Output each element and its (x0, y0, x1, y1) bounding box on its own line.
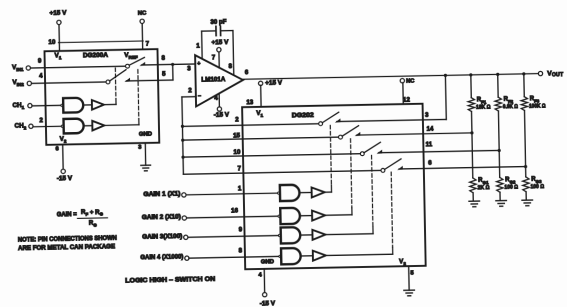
svg-text:+15 V: +15 V (49, 10, 67, 17)
svg-text:RF1: RF1 (477, 97, 487, 104)
svg-text:8: 8 (229, 63, 233, 70)
svg-text:10: 10 (48, 39, 56, 46)
svg-text:12: 12 (403, 96, 411, 103)
svg-text:LM101A: LM101A (201, 76, 226, 83)
svg-text:RF2: RF2 (504, 97, 514, 104)
svg-text:16: 16 (231, 207, 239, 214)
svg-text:7: 7 (146, 40, 150, 47)
svg-text:1: 1 (238, 185, 242, 192)
svg-text:+15 V: +15 V (211, 39, 229, 46)
svg-text:-15 V: -15 V (260, 300, 276, 307)
svg-text:5: 5 (162, 71, 166, 78)
svg-text:8: 8 (239, 248, 243, 255)
svg-text:RG3: RG3 (531, 176, 542, 183)
svg-text:+15 V: +15 V (265, 79, 283, 86)
svg-text:7: 7 (212, 54, 216, 61)
svg-text:NC: NC (138, 10, 147, 16)
svg-text:+: + (197, 61, 200, 67)
svg-text:VIN1: VIN1 (12, 64, 24, 72)
svg-text:-15 V: -15 V (214, 111, 230, 118)
svg-text:GAIN 4 (X1000): GAIN 4 (X1000) (140, 255, 183, 262)
svg-text:9.9K Ω: 9.9K Ω (503, 104, 519, 110)
svg-text:NC: NC (406, 78, 414, 84)
svg-text:NOTE: PIN CONNECTIONS SHOWN: NOTE: PIN CONNECTIONS SHOWN (18, 235, 118, 244)
svg-text:V1: V1 (55, 52, 62, 60)
svg-text:100 Ω: 100 Ω (531, 184, 545, 190)
svg-text:GAIN 1 (X1): GAIN 1 (X1) (143, 191, 180, 198)
svg-text:1: 1 (196, 42, 200, 49)
svg-text:11: 11 (426, 141, 433, 148)
svg-text:3: 3 (138, 145, 142, 151)
svg-text:V2: V2 (60, 135, 67, 143)
svg-text:DG202: DG202 (292, 112, 315, 119)
svg-text:8: 8 (161, 55, 165, 62)
svg-text:RG2: RG2 (505, 177, 516, 184)
svg-text:14: 14 (426, 126, 434, 133)
svg-text:3: 3 (425, 112, 429, 119)
svg-text:GAIN 3(X100): GAIN 3(X100) (142, 234, 182, 241)
svg-text:2: 2 (188, 87, 192, 94)
svg-text:GAIN =: GAIN = (57, 211, 77, 218)
svg-text:GND: GND (139, 131, 152, 137)
svg-text:DG200A: DG200A (83, 52, 109, 59)
svg-text:9: 9 (38, 58, 42, 65)
svg-text:9: 9 (239, 226, 243, 233)
svg-text:RG: RG (89, 220, 98, 228)
svg-text:6: 6 (428, 160, 432, 167)
svg-text:4: 4 (39, 73, 43, 80)
svg-text:100K Ω: 100K Ω (529, 104, 546, 110)
svg-text:5: 5 (410, 270, 414, 276)
svg-text:V1: V1 (256, 110, 263, 118)
svg-text:ARE FOR METAL CAN PACKAGE: ARE FOR METAL CAN PACKAGE (18, 243, 115, 252)
svg-text:30 pF: 30 pF (210, 18, 226, 25)
svg-text:6: 6 (245, 69, 249, 76)
svg-text:7: 7 (237, 165, 241, 172)
svg-text:18K Ω: 18K Ω (476, 105, 491, 111)
svg-text:15: 15 (233, 132, 241, 139)
svg-text:100 Ω: 100 Ω (504, 184, 518, 190)
svg-text:2: 2 (235, 116, 239, 123)
svg-text:RF3: RF3 (530, 96, 540, 103)
svg-text:2: 2 (39, 117, 43, 124)
svg-text:V2: V2 (399, 258, 406, 266)
svg-text:RG1: RG1 (478, 177, 489, 184)
svg-text:−: − (198, 93, 201, 99)
svg-text:4: 4 (214, 95, 218, 102)
svg-text:3: 3 (187, 65, 191, 72)
svg-text:2K Ω: 2K Ω (478, 185, 491, 191)
svg-text:RF + RG: RF + RG (81, 209, 104, 217)
svg-text:CH1: CH1 (12, 102, 24, 110)
svg-text:13: 13 (246, 99, 254, 106)
svg-text:GAIN 2 (X10): GAIN 2 (X10) (142, 214, 181, 221)
svg-text:VOUT: VOUT (547, 70, 564, 78)
svg-text:VIN2: VIN2 (12, 79, 24, 87)
svg-text:10: 10 (233, 149, 241, 156)
svg-text:6: 6 (56, 146, 60, 152)
svg-text:VREF: VREF (124, 52, 138, 60)
svg-text:GND: GND (261, 259, 274, 265)
svg-text:4: 4 (258, 272, 262, 278)
svg-text:CH2: CH2 (15, 122, 27, 130)
svg-text:-15 V: -15 V (57, 175, 73, 182)
svg-text:LOGIC HIGH – SWITCH ON: LOGIC HIGH – SWITCH ON (125, 276, 216, 285)
